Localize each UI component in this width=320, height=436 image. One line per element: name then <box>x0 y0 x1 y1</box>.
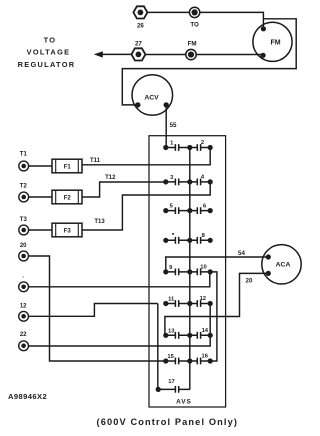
label TO VOLTAGE REGULATOR <box>18 36 76 69</box>
switch assembly AVS box <box>149 136 226 407</box>
wire terminal 22 to contact 14 <box>29 335 211 346</box>
svg-text:ACA: ACA <box>276 262 291 269</box>
svg-text:T2: T2 <box>20 184 28 190</box>
terminal FM <box>186 49 196 59</box>
svg-text:T12: T12 <box>105 175 116 181</box>
svg-text:T1: T1 <box>20 151 28 157</box>
terminal 27 (hex) <box>131 48 145 60</box>
svg-text:F1: F1 <box>64 164 72 170</box>
svg-text:F2: F2 <box>64 195 72 201</box>
svg-text:27: 27 <box>135 41 142 48</box>
fuse F1 <box>52 159 82 173</box>
terminal TO <box>189 7 199 17</box>
svg-text:AVS: AVS <box>176 398 192 405</box>
fuse F2 <box>52 190 82 204</box>
wire lower second terminal to contact 10 <box>29 272 210 287</box>
svg-text:ACV: ACV <box>144 94 159 101</box>
terminal T3 <box>19 225 29 235</box>
svg-text:14: 14 <box>202 328 209 334</box>
terminal 26 (hex) <box>133 6 147 18</box>
node ACV right terminal <box>164 102 169 107</box>
svg-text:F3: F3 <box>64 228 72 234</box>
terminal 22 <box>19 341 29 351</box>
terminal T1 <box>19 161 29 171</box>
svg-text:12: 12 <box>20 303 27 309</box>
wire contact 10 to contact 16 <box>210 272 217 361</box>
terminal minus <box>19 282 29 292</box>
wire T11 fuse F1 to contact 2 <box>82 148 210 165</box>
svg-text:54: 54 <box>238 250 245 257</box>
svg-text:(600V Control Panel Only): (600V Control Panel Only) <box>97 417 239 427</box>
wire net 20 ACA to contact 13 <box>165 273 268 335</box>
svg-text:20: 20 <box>20 243 27 249</box>
svg-text:T11: T11 <box>90 158 101 164</box>
svg-text:17: 17 <box>168 379 174 385</box>
svg-text:FM: FM <box>270 39 280 46</box>
svg-text:VOLTAGE: VOLTAGE <box>27 48 71 57</box>
svg-text:T3: T3 <box>20 217 28 223</box>
wire arrow line to voltage regulator <box>97 53 132 55</box>
wire 26 to TO terminal <box>147 11 189 13</box>
terminal 12 <box>19 311 29 321</box>
svg-text:13: 13 <box>168 328 175 334</box>
terminal T2 <box>19 192 29 202</box>
wire T12 fuse F2 to contact 3 <box>82 182 166 197</box>
arrowhead to voltage regulator <box>94 51 103 57</box>
contact 7 (left dot, bars) row y=240.3 <box>172 233 174 235</box>
fuse F3 <box>52 223 82 237</box>
wire T3 to fuse F3 <box>29 229 53 231</box>
svg-text:16: 16 <box>201 354 208 360</box>
wire contact 12 to contact 14 <box>209 304 211 336</box>
wire T2 to fuse F2 <box>29 196 53 198</box>
svg-text:·: · <box>22 275 24 281</box>
AC ammeter ACA <box>262 245 301 284</box>
svg-text:11: 11 <box>168 297 175 303</box>
wire TO terminal to FM meter top dot <box>200 12 263 28</box>
wire branch around FM meter to ACV meter <box>122 19 296 105</box>
node ACA lower terminal <box>266 271 271 276</box>
wire left chain contact 11 to contact 17 <box>157 304 159 390</box>
terminal 20 <box>19 251 29 261</box>
wire middle chain vertical <box>189 148 191 390</box>
node FM meter top terminal <box>261 26 266 31</box>
frequency meter FM <box>253 22 292 61</box>
svg-text:A98946X2: A98946X2 <box>8 392 47 401</box>
svg-text:FM: FM <box>188 40 197 47</box>
svg-text:TO: TO <box>190 22 199 29</box>
wire T1 to fuse F1 <box>29 165 53 167</box>
svg-text:REGULATOR: REGULATOR <box>18 60 76 69</box>
wire 27 terminal through FM terminal to FM meter bottom dot <box>145 54 263 56</box>
wire net 55 ACV to contact 1 <box>165 105 167 148</box>
wire T13 fuse F3 to contact 4 <box>82 182 210 230</box>
wire terminal 20 to contact 15 <box>29 256 166 361</box>
svg-text:15: 15 <box>167 354 174 360</box>
wire net 54 ACA to contact 9 <box>166 257 268 272</box>
svg-text:2: 2 <box>201 140 204 146</box>
AC voltmeter ACV <box>132 75 173 116</box>
wire terminal 12 to contact 11 <box>29 304 158 317</box>
svg-text:22: 22 <box>20 332 27 338</box>
node ACV left terminal <box>135 102 140 107</box>
svg-text:55: 55 <box>170 122 177 129</box>
node ACA upper terminal <box>266 254 271 259</box>
node FM meter bottom terminal <box>261 53 266 58</box>
svg-text:26: 26 <box>137 22 144 29</box>
svg-text:TO: TO <box>44 36 57 45</box>
svg-text:20: 20 <box>246 278 253 285</box>
svg-text:T13: T13 <box>94 219 105 225</box>
